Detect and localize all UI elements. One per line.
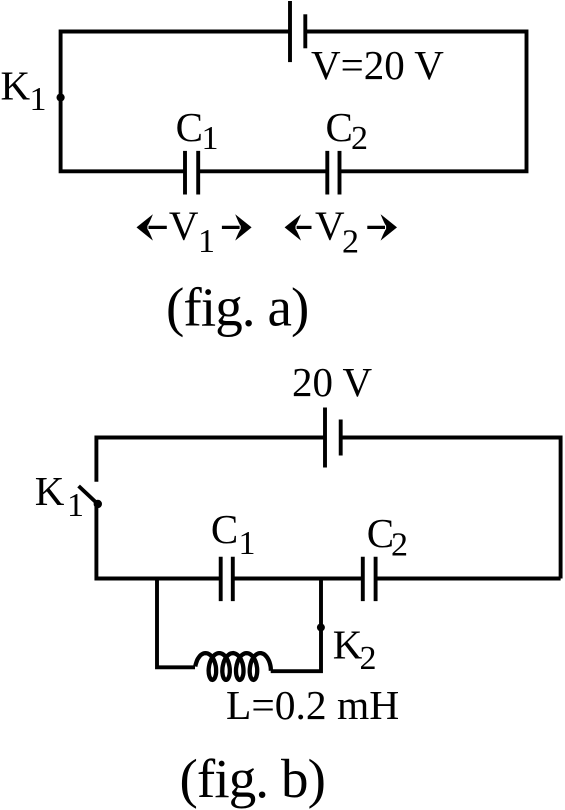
capacitor C2 fig-a left plate [325,151,329,195]
svg-text:C: C [367,510,394,556]
label V2 fig-a [315,203,359,261]
label C1 fig-a [176,104,219,157]
svg-text:C: C [211,506,238,552]
arrow right of V2 fig-a [367,214,397,240]
label C2 fig-a [326,104,369,157]
svg-text:2: 2 [360,640,377,677]
arrow left of V2 fig-a [285,214,312,240]
capacitor C1 fig-a left plate [183,151,187,195]
battery V1 fig-a long plate [288,1,292,62]
label C2 fig-b [367,510,408,564]
svg-text:1: 1 [198,223,215,260]
capacitor C2 fig-b right plate [374,557,378,601]
svg-text:1: 1 [30,81,47,118]
wire fig-a bottom middle between C1 and C2 [198,169,327,173]
svg-text:K: K [333,621,363,667]
svg-text:V=20 V: V=20 V [311,42,444,88]
wire fig-b middle right [376,577,561,581]
inductor L coil [195,653,271,680]
node K1 fig-a junction dot [57,93,65,101]
svg-text:1: 1 [202,120,219,157]
svg-text:1: 1 [67,487,84,524]
arrow left of V1 fig-a [137,214,167,240]
label C1 fig-b [211,506,256,562]
capacitor C2 fig-b left plate [361,557,365,601]
svg-text:V: V [169,203,199,249]
wire fig-b left lower [96,504,220,579]
svg-text:L=0.2 mH: L=0.2 mH [226,682,399,728]
battery 20V fig-b short plate [339,420,343,456]
svg-text:C: C [326,104,353,150]
switch K1 fig-b blade [79,486,98,504]
battery V1 fig-a short plate [303,14,307,48]
label K1 fig-b [35,468,84,524]
svg-text:C: C [176,104,203,150]
wire fig-b top-right + right side [341,438,561,579]
wire fig-b loop left side [157,579,195,668]
capacitor C1 fig-a right plate [196,151,200,195]
label V1 fig-a [169,203,215,260]
wire fig-b loop right side [271,579,321,672]
svg-text:2: 2 [342,224,359,261]
node K2 fig-b junction dot [317,623,325,631]
svg-text:2: 2 [391,527,408,564]
svg-text:1: 1 [239,525,256,562]
wire fig-a top-left + left side + bottom-left [61,32,290,172]
svg-text:K: K [1,63,31,109]
switch K1 fig-b pivot dot [94,500,102,508]
svg-text:V: V [315,203,345,249]
label K1 fig-a [1,63,47,118]
capacitor C1 fig-b left plate [219,557,223,601]
wire fig-b top-left [96,438,325,482]
svg-text:2: 2 [351,120,368,157]
label K2 fig-b [333,621,377,677]
wire fig-a bottom-right + right side + top-right [305,32,526,172]
arrow right of V1 fig-a [222,214,252,240]
capacitor C1 fig-b right plate [231,557,235,601]
svg-text:(fig. b): (fig. b) [180,748,326,809]
battery 20V fig-b long plate [323,408,327,468]
capacitor C2 fig-a right plate [338,151,342,195]
svg-text:20 V: 20 V [292,359,373,405]
svg-text:K: K [35,468,65,514]
svg-text:(fig. a): (fig. a) [166,277,308,338]
wire fig-b middle between C1 and C2 [233,577,363,581]
